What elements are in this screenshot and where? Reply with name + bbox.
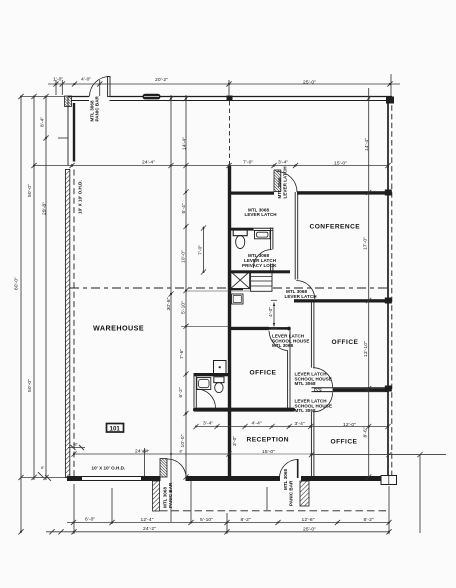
- dimension interior vertical line B ticks: [168, 96, 250, 480]
- svg-text:8'-4": 8'-4": [40, 117, 46, 127]
- dimension extension bottom-left horizontal: [21, 477, 67, 479]
- svg-text:60'-0": 60'-0": [14, 277, 20, 290]
- svg-text:20'-2": 20'-2": [155, 77, 168, 83]
- dimension row y=426.5 ticks: [193, 424, 390, 429]
- bath bottom wall: [230, 270, 291, 273]
- wall right exterior: outer dashed: [391, 97, 393, 477]
- dimension row 24'-4" line: [34, 165, 388, 167]
- junction blob right wall / conference top: [385, 190, 392, 196]
- text note MTL 3068 PANIC BAR top door (rotated two lines): [90, 95, 100, 121]
- svg-text:MTL 3068: MTL 3068: [283, 469, 288, 490]
- dimension row y=454 ticks: [71, 451, 422, 457]
- svg-text:7'-0": 7'-0": [198, 245, 204, 255]
- louver in top wall: [143, 94, 161, 100]
- svg-text:15'-0": 15'-0": [334, 161, 347, 167]
- dimension line 7'-0" hall bath height: [201, 225, 206, 274]
- text note MTL 3068 LEVER LATCH conference door: [285, 289, 317, 299]
- wall bottom: thick segment left of entry door: [141, 476, 161, 481]
- svg-text:RECEPTION: RECEPTION: [247, 436, 290, 443]
- svg-text:25'-0": 25'-0": [303, 526, 316, 532]
- fixture sink (hall bath): [255, 231, 271, 239]
- svg-text:8'-2": 8'-2": [241, 517, 251, 523]
- svg-text:24'-4": 24'-4": [142, 160, 155, 166]
- door D3 reception entry: leaf: [297, 459, 299, 478]
- dimension left column vertical lines: [20, 97, 22, 534]
- svg-text:10' X 10' O.H.D.: 10' X 10' O.H.D.: [92, 466, 126, 471]
- dimension vertical right outside x=420: [419, 455, 421, 533]
- svg-text:MTL 3068: MTL 3068: [163, 487, 168, 508]
- hall west wall: [288, 330, 290, 411]
- fixture toilet (warehouse bath): [214, 377, 224, 393]
- text note MTL 3068 PANIC BAR reception door (rotated): [283, 469, 294, 506]
- dashed line mid building: [70, 287, 388, 289]
- svg-text:29'-8": 29'-8": [42, 202, 48, 215]
- text note LEVER LATCH SCHOOL HOUSE MTL 3068 office bottom: [295, 399, 332, 414]
- door D2 swing arc: [168, 459, 187, 478]
- overhead door line left wall (dashed inner face): [73, 170, 75, 477]
- dimension row reception/offices y=426.5: [196, 426, 388, 428]
- svg-text:3'-4": 3'-4": [203, 421, 213, 427]
- dimension extension top-left horizontal: [21, 96, 65, 98]
- office1 top wall bulb end: [287, 327, 290, 331]
- svg-text:MTL 3068: MTL 3068: [295, 381, 316, 386]
- corridor west wall (bath right): [271, 228, 273, 271]
- svg-text:25'-0": 25'-0": [303, 80, 316, 86]
- dimension line C ticks: [366, 96, 371, 480]
- demising wall warehouse/office solid: [228, 166, 231, 477]
- bath top wall: [230, 228, 274, 231]
- svg-text:13'-10": 13'-10": [363, 341, 369, 357]
- svg-text:7'-6": 7'-6": [179, 349, 185, 359]
- fixture sink (warehouse bath): [197, 378, 211, 390]
- text note MTL 3068 LEVER LATCH horizontal: [245, 208, 277, 218]
- svg-text:WAREHOUSE: WAREHOUSE: [93, 324, 144, 333]
- dimension bottom extension verticals: [74, 448, 389, 534]
- text note MTL 3068 LEVER LATCH PRIVACY LOCK: [242, 253, 277, 268]
- door D8 warehouse bath swing arc: [197, 389, 216, 408]
- svg-text:PANIC BAR: PANIC BAR: [168, 482, 173, 508]
- office divider wall: [312, 388, 389, 392]
- svg-text:3'-4": 3'-4": [295, 421, 305, 427]
- door D10 office bottom swing arc: [313, 392, 333, 412]
- wall top exterior (double line): [68, 97, 392, 101]
- pier top-left corner (hatched): [65, 96, 72, 107]
- svg-text:PANIC BAR: PANIC BAR: [95, 95, 100, 121]
- svg-text:50'-0": 50'-0": [27, 184, 33, 197]
- dimension interior vertical line B (14'-4" chain): [185, 95, 187, 477]
- dimension 4'-0" vertical arrow line: [271, 300, 277, 328]
- svg-text:OFFICE: OFFICE: [250, 369, 277, 376]
- dimension row 24'-4" ticks: [69, 163, 390, 168]
- wall left upper (outer line + thick inner): [68, 97, 74, 166]
- door D2 entry warehouse: hatched leaf: [160, 459, 167, 478]
- svg-text:17'-0": 17'-0": [363, 237, 369, 250]
- svg-text:LEVER LATCH: LEVER LATCH: [283, 166, 288, 198]
- svg-text:10'-0": 10'-0": [180, 434, 186, 447]
- hall east wall upper: [311, 300, 314, 368]
- dimension small 8" ticks bottom-left corner: [38, 445, 85, 481]
- door D1 top exterior: leaf: [108, 77, 110, 97]
- svg-text:5'-10": 5'-10": [181, 301, 187, 314]
- warehouse bath top wall: [194, 373, 231, 376]
- junction blob right wall / conference bottom: [385, 298, 392, 304]
- dimension left column ticks: [18, 94, 68, 535]
- svg-text:1'-0": 1'-0": [53, 77, 63, 83]
- svg-text:PANIC BAR: PANIC BAR: [289, 480, 294, 506]
- svg-text:4'-0": 4'-0": [81, 77, 91, 83]
- svg-text:4'-4": 4'-4": [252, 421, 262, 427]
- office1 top wall: [230, 327, 270, 330]
- fixture mop sink: [214, 361, 227, 375]
- hall top wall: [230, 192, 275, 195]
- svg-text:12'-4": 12'-4": [141, 517, 154, 523]
- janitor X-box: [230, 272, 250, 290]
- dashed canopy line bottom: [160, 510, 389, 512]
- svg-text:12'-8": 12'-8": [302, 517, 315, 523]
- svg-text:5'-4": 5'-4": [181, 203, 187, 213]
- warehouse bath left wall / door leaf: [194, 373, 196, 408]
- door D6 bath privacy swing arc: [253, 250, 271, 269]
- svg-text:CONFERENCE: CONFERENCE: [310, 224, 361, 231]
- svg-text:101: 101: [110, 426, 121, 433]
- svg-text:15'-0": 15'-0": [262, 449, 275, 455]
- text note MTL 3068 PANIC BAR entry door (rotated): [163, 482, 174, 508]
- dimension row 24'-8" y=454: [74, 453, 446, 456]
- pier below reception door (hatched): [300, 481, 309, 506]
- svg-text:PRIVACY LOCK: PRIVACY LOCK: [242, 263, 277, 268]
- svg-text:6'-0": 6'-0": [85, 517, 95, 523]
- wall bottom: right thick segment: [301, 476, 381, 481]
- hall east wall lower: [311, 412, 314, 476]
- svg-text:8'-2": 8'-2": [364, 517, 374, 523]
- svg-text:MTL 3068: MTL 3068: [272, 343, 293, 348]
- demising wall warehouse/office dashed upper: [229, 101, 231, 166]
- text note MTL 3068 LEVER LATCH hall door (rotated two lines): [277, 166, 288, 198]
- svg-text:OFFICE: OFFICE: [331, 438, 358, 445]
- svg-text:10'-0": 10'-0": [181, 250, 187, 263]
- dimension interior vertical line C right (14'-4"/17'-0"): [368, 88, 370, 477]
- svg-text:3'-0": 3'-0": [232, 436, 238, 446]
- svg-text:MTL 3068: MTL 3068: [295, 408, 316, 413]
- wall bottom: middle thick segment: [186, 476, 281, 481]
- svg-text:24'-2": 24'-2": [143, 526, 156, 532]
- door D4 swing arc: [277, 172, 298, 193]
- svg-text:5'-10": 5'-10": [200, 517, 213, 523]
- svg-text:10' X 10' O.H.D.: 10' X 10' O.H.D.: [78, 180, 83, 214]
- wall left warehouse (double + hatch): [65, 170, 69, 478]
- junction blob top wall / right wall: [386, 97, 394, 104]
- svg-text:LEVER LATCH: LEVER LATCH: [285, 294, 317, 299]
- svg-text:30'-8": 30'-8": [166, 297, 172, 310]
- svg-text:12'-0": 12'-0": [343, 422, 356, 428]
- dimension bottom row1 y=522.5: [67, 522, 389, 524]
- svg-text:14'-4": 14'-4": [364, 138, 370, 151]
- pier below entry door (hatched): [153, 481, 160, 511]
- door D4 hall: hatched leaf: [274, 170, 281, 192]
- dimension bottom row2 y=531.8: [46, 531, 389, 533]
- dimension top extension verticals: [56, 74, 391, 96]
- svg-text:OFFICE: OFFICE: [332, 339, 359, 346]
- dimension bottom row2 ticks: [49, 529, 391, 534]
- pier bottom-right corner (outline): [381, 476, 397, 485]
- wall bottom: overhead door thin double segment: [82, 477, 141, 481]
- wall right exterior: inner solid: [387, 97, 389, 477]
- wall bottom: left corner thick segment: [67, 476, 82, 481]
- conference left wall (double): [295, 192, 298, 280]
- svg-text:7'-0": 7'-0": [243, 160, 253, 166]
- dimension top row ticks: [53, 81, 392, 86]
- door D5 conference swing arc: [296, 281, 315, 300]
- svg-text:6'-2": 6'-2": [178, 387, 184, 397]
- svg-text:3'-4": 3'-4": [278, 160, 288, 166]
- door D7 office1 swing arc: [269, 331, 288, 351]
- dimension bottom row1 ticks: [71, 520, 392, 525]
- room box 101: [107, 424, 124, 433]
- junction blob top wall / demising wall: [227, 96, 233, 102]
- junction blob right wall / office divider: [385, 386, 392, 392]
- door D9 office top swing arc: [313, 368, 333, 388]
- door D1 swing arc: [90, 77, 110, 97]
- svg-text:14'-4": 14'-4": [182, 137, 188, 150]
- svg-text:MTL 3068: MTL 3068: [277, 177, 282, 198]
- text note LEVER LATCH SCHOOL HOUSE MTL 3068 office1: [272, 334, 309, 349]
- dimension top row line: [48, 83, 400, 85]
- text note LEVER LATCH SCHOOL HOUSE MTL 3068 office top: [295, 372, 332, 387]
- water heater: [232, 294, 244, 304]
- casework shelves: [251, 272, 272, 292]
- svg-text:4'-0": 4'-0": [268, 307, 274, 317]
- conference top wall: [297, 191, 388, 194]
- conference bottom wall: [294, 299, 388, 302]
- door D3 swing arc: [280, 460, 298, 479]
- office1 / vestibule bottom wall: [193, 408, 295, 412]
- svg-text:LEVER LATCH: LEVER LATCH: [245, 212, 277, 217]
- svg-text:50'-0": 50'-0": [27, 379, 33, 392]
- svg-text:1'-4": 1'-4": [142, 449, 150, 453]
- fixture toilet (hall bath): [233, 229, 247, 249]
- dimension interior vertical line A (30'-8"): [170, 95, 172, 522]
- svg-text:8'-6": 8'-6": [363, 427, 369, 437]
